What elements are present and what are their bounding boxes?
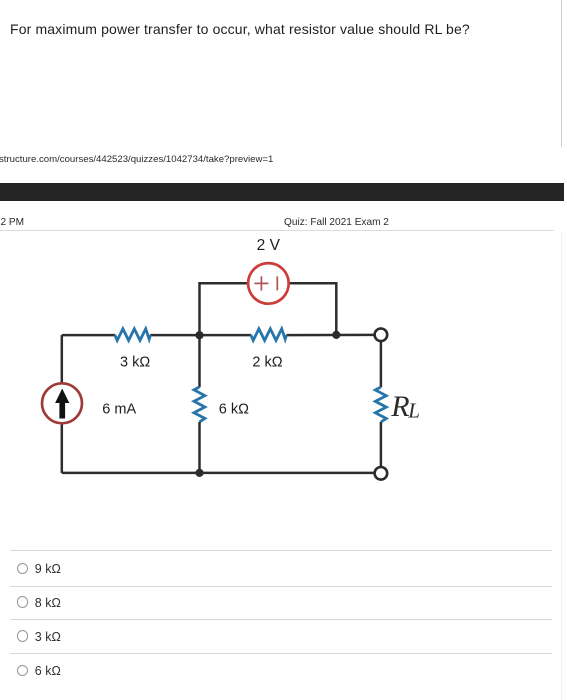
answer radio 4 <box>17 665 29 677</box>
wire left vertical upper <box>61 335 64 383</box>
current source I1 circle <box>42 383 82 423</box>
wire center vertical lower <box>198 422 201 473</box>
svg-text:L: L <box>407 398 420 422</box>
answer radio 2 <box>17 596 29 608</box>
answer radio 3 <box>17 630 29 642</box>
answer label 4 <box>35 664 61 678</box>
black header bar <box>0 183 564 201</box>
svg-text:6 kΩ: 6 kΩ <box>219 401 249 417</box>
label RL <box>390 390 420 423</box>
wire bottom horizontal <box>62 472 375 475</box>
answer separator 2 <box>10 586 552 587</box>
wire main horizontal left <box>62 334 115 337</box>
wire right vertical lower <box>380 422 383 467</box>
browser url text <box>0 154 273 165</box>
svg-text:3 kΩ: 3 kΩ <box>120 355 150 371</box>
answer label 1 <box>35 562 61 576</box>
svg-text:R: R <box>390 390 409 423</box>
svg-text:2 V: 2 V <box>257 237 281 254</box>
wire top-right branch <box>289 283 337 335</box>
wire main horizontal middle <box>150 334 251 337</box>
current source arrow <box>55 389 69 419</box>
thin divider under header <box>0 230 554 231</box>
voltage source plus sign <box>254 276 268 290</box>
svg-text:2 kΩ: 2 kΩ <box>252 355 282 371</box>
answer separator 4 <box>10 653 552 654</box>
voltage source minus bar <box>276 276 278 290</box>
answer separator 3 <box>10 619 552 620</box>
terminal b (open circle bottom) <box>375 467 388 480</box>
terminal a (open circle top) <box>375 329 388 342</box>
answer separator 1 <box>10 550 552 551</box>
right border line (faint, lower) <box>561 232 562 700</box>
resistor R1 3k zigzag <box>115 329 150 341</box>
answer label 3 <box>35 630 61 644</box>
wire top-left branch <box>200 283 249 335</box>
node junction bottom-center <box>195 469 203 477</box>
node junction top-right <box>332 331 340 339</box>
answer label 2 <box>35 596 61 610</box>
wire main horizontal right <box>286 334 374 337</box>
wire left vertical lower <box>61 423 64 473</box>
resistor RL vertical zigzag <box>375 387 386 422</box>
voltage source V1 circle <box>248 263 289 304</box>
question title <box>10 21 470 37</box>
svg-text:6 mA: 6 mA <box>102 401 136 417</box>
quiz title text <box>284 217 389 228</box>
node junction top-center <box>195 331 203 339</box>
resistor R2 2k zigzag <box>251 329 287 341</box>
timestamp text <box>1 217 25 228</box>
resistor R3 6k vertical zigzag <box>194 387 205 422</box>
answer radio 1 <box>17 563 29 575</box>
right border line (top) <box>561 0 562 147</box>
wire center vertical upper <box>198 335 201 387</box>
wire right vertical upper <box>380 341 383 387</box>
